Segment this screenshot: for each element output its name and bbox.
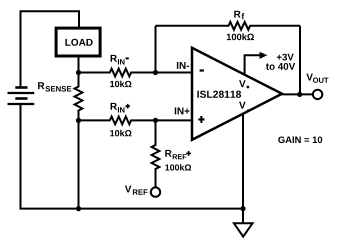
label RF: [234, 11, 244, 19]
wire feedback left: [155, 26, 157, 73]
pin minus symbol: [200, 69, 204, 71]
node junction IN- rail: [76, 70, 81, 75]
supply arrowhead: [260, 52, 268, 59]
label GAIN = 10: [278, 136, 322, 143]
terminal VREF: [151, 187, 160, 196]
wire battery to ground rail: [21, 105, 244, 209]
node junction bottom rail: [76, 206, 81, 211]
value RIN+ 10k: [110, 130, 131, 137]
pin label IN+: [175, 108, 190, 115]
resistor RIN+ 10k: [79, 117, 193, 125]
label VOUT: [306, 74, 328, 83]
wire top-left loop: [21, 11, 80, 87]
value RF 100k: [227, 33, 254, 40]
value RIN- 10k: [110, 81, 131, 88]
label RIN-: [111, 55, 125, 65]
resistor RF 100k: [156, 22, 301, 30]
load box LOAD: [56, 28, 100, 56]
pin label V+: [239, 80, 246, 87]
node junction ground rail: [240, 206, 245, 211]
op-amp U1 ISL28118: [192, 48, 282, 140]
pin plus symbol: [198, 116, 204, 123]
label RSENSE: [38, 82, 71, 91]
battery V1: [8, 88, 35, 105]
wire feedback right: [299, 26, 301, 95]
wire LOAD to IN- node: [78, 56, 80, 73]
value RREF 100k: [165, 164, 191, 170]
node junction IN+ rail: [76, 118, 81, 123]
resistor RREF+ 100k: [152, 120, 160, 187]
wire V- to ground rail: [242, 113, 244, 209]
label +3V: [277, 54, 294, 61]
terminal VOUT: [313, 90, 322, 99]
label LOAD: [65, 39, 92, 46]
node junction output feedback: [297, 92, 302, 97]
label VREF: [125, 186, 148, 195]
wire node to bottom rail: [78, 120, 80, 208]
node junction IN+ RREF branch: [153, 118, 158, 123]
resistor RSENSE: [75, 73, 83, 121]
ground: [234, 209, 253, 237]
wire supply arrow: [245, 55, 260, 75]
label to 40V: [266, 63, 295, 70]
label RREF+: [165, 150, 186, 159]
wire output: [282, 93, 313, 95]
pin label IN-: [177, 62, 189, 69]
label ISL28118: [197, 91, 241, 98]
pin label V-: [239, 102, 246, 109]
label RIN+: [111, 103, 125, 113]
resistor RIN- 10k: [79, 69, 193, 77]
node junction IN- feedback: [153, 70, 158, 75]
